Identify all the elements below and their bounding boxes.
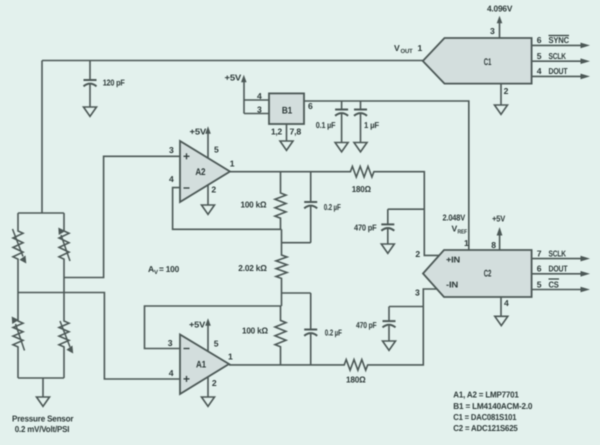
svg-text:470 pF: 470 pF [356, 320, 377, 330]
svg-text:6: 6 [537, 264, 542, 274]
svg-text:1: 1 [230, 158, 235, 168]
svg-text:180Ω: 180Ω [346, 374, 366, 384]
svg-text:+5V: +5V [492, 214, 505, 224]
svg-text:120 pF: 120 pF [103, 77, 125, 87]
svg-text:0.2 mV/Volt/PSI: 0.2 mV/Volt/PSI [15, 424, 70, 434]
svg-text:4: 4 [169, 174, 174, 184]
svg-text:SCLK: SCLK [549, 51, 567, 61]
svg-text:2: 2 [212, 378, 217, 388]
svg-text:3: 3 [490, 26, 495, 36]
svg-text:3: 3 [415, 288, 420, 298]
svg-text:6: 6 [537, 35, 542, 45]
svg-text:2.048V: 2.048V [443, 212, 466, 222]
svg-text:100 kΩ: 100 kΩ [242, 326, 268, 336]
svg-text:C2: C2 [484, 269, 492, 280]
svg-text:SCLK: SCLK [549, 248, 567, 258]
svg-text:1: 1 [418, 43, 423, 53]
svg-text:5: 5 [214, 339, 219, 349]
svg-text:470 pF: 470 pF [354, 223, 377, 233]
svg-text:= 100: = 100 [159, 264, 179, 274]
svg-text:3: 3 [168, 338, 173, 348]
svg-text:4: 4 [537, 66, 542, 76]
svg-text:3: 3 [169, 145, 174, 155]
svg-text:SYNC: SYNC [549, 35, 569, 45]
svg-text:5: 5 [214, 145, 219, 155]
svg-text:CS: CS [549, 279, 560, 289]
svg-text:+IN: +IN [446, 254, 460, 264]
svg-text:5: 5 [537, 51, 542, 61]
svg-text:0.2 µF: 0.2 µF [324, 202, 341, 212]
svg-text:0.2 µF: 0.2 µF [325, 328, 342, 338]
svg-text:2: 2 [211, 185, 216, 195]
svg-text:A1: A1 [196, 360, 207, 371]
svg-text:8: 8 [491, 240, 496, 250]
svg-text:4: 4 [504, 298, 509, 308]
svg-text:+5V: +5V [189, 320, 205, 330]
svg-text:5: 5 [537, 279, 542, 289]
svg-text:7: 7 [537, 248, 542, 258]
svg-text:C1 = DAC081S101: C1 = DAC081S101 [453, 412, 516, 422]
svg-text:C2 = ADC121S625: C2 = ADC121S625 [453, 423, 518, 433]
svg-text:V: V [394, 43, 400, 53]
svg-text:V: V [154, 269, 158, 276]
svg-text:A1, A2 = LMP7701: A1, A2 = LMP7701 [453, 390, 519, 400]
svg-text:Pressure Sensor: Pressure Sensor [12, 413, 74, 423]
svg-text:6: 6 [308, 101, 313, 111]
svg-text:1: 1 [464, 238, 469, 248]
svg-text:3: 3 [257, 105, 262, 115]
svg-text:REF: REF [458, 228, 468, 235]
svg-text:B1: B1 [282, 106, 293, 117]
svg-text:4: 4 [257, 91, 262, 101]
svg-text:2: 2 [504, 86, 509, 96]
svg-text:1 µF: 1 µF [364, 120, 379, 130]
svg-text:1,2: 1,2 [271, 127, 282, 137]
svg-text:0.1 µF: 0.1 µF [316, 120, 336, 130]
svg-text:-IN: -IN [446, 280, 458, 290]
svg-text:DOUT: DOUT [549, 66, 569, 76]
svg-text:1: 1 [228, 352, 233, 362]
svg-text:2.02 kΩ: 2.02 kΩ [238, 263, 267, 273]
svg-text:180Ω: 180Ω [352, 184, 371, 194]
svg-text:DOUT: DOUT [549, 264, 569, 274]
svg-text:4.096V: 4.096V [487, 3, 513, 13]
svg-text:+5V: +5V [225, 73, 242, 83]
svg-text:C1: C1 [484, 57, 492, 68]
svg-text:4: 4 [169, 368, 174, 378]
svg-text:+5V: +5V [190, 127, 207, 137]
svg-text:2: 2 [415, 249, 420, 259]
svg-text:7,8: 7,8 [290, 127, 302, 137]
svg-text:B1 = LM4140ACM-2.0: B1 = LM4140ACM-2.0 [453, 401, 532, 411]
svg-text:A2: A2 [195, 167, 205, 178]
svg-text:OUT: OUT [401, 48, 414, 55]
svg-text:100 kΩ: 100 kΩ [241, 199, 267, 209]
